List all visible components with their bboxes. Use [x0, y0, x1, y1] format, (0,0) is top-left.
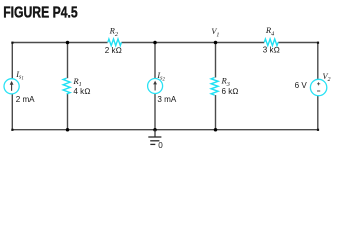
node junction dot bottom R3 — [214, 128, 218, 132]
svg-text:2 mA: 2 mA — [16, 95, 35, 104]
node corner bottom-left — [11, 129, 13, 131]
wire R3 branch lower — [215, 95, 217, 130]
node junction dot top R1 — [66, 41, 70, 45]
wire top-right segment — [278, 42, 319, 44]
node corner top-right — [317, 42, 319, 44]
node V1 junction dot — [214, 41, 218, 45]
svg-text:4 kΩ: 4 kΩ — [73, 87, 90, 96]
node junction dot bottom R1 — [66, 128, 70, 132]
wire top-left segment — [12, 42, 108, 44]
resistor R2 — [105, 26, 122, 56]
resistor R1 — [63, 76, 90, 96]
wire Is2 branch — [154, 43, 156, 130]
resistor R4 — [263, 25, 280, 54]
wire R3 branch upper — [215, 43, 217, 78]
wire R1 branch lower — [67, 94, 69, 130]
current source Is2 — [148, 71, 177, 104]
svg-text:3 mA: 3 mA — [157, 95, 176, 104]
ground — [148, 130, 163, 150]
wire top-middle segment — [121, 42, 264, 44]
svg-text:3 kΩ: 3 kΩ — [263, 45, 280, 54]
node corner bottom-right — [317, 129, 319, 131]
wire R1 branch upper — [67, 43, 69, 79]
wire right branch — [317, 42, 319, 131]
svg-text:6 V: 6 V — [295, 81, 308, 90]
current source Is1 — [4, 70, 35, 104]
svg-text:2 kΩ: 2 kΩ — [105, 46, 122, 55]
voltage source V2 (6 V) — [295, 72, 331, 96]
node corner top-left — [11, 42, 13, 44]
node junction dot top Is2 — [153, 41, 157, 45]
node junction dot bottom ground — [153, 128, 157, 132]
wire bottom — [12, 129, 319, 131]
svg-text:6 kΩ: 6 kΩ — [222, 87, 239, 96]
wire left branch — [11, 42, 13, 131]
svg-text:FIGURE P4.5: FIGURE P4.5 — [3, 4, 78, 21]
resistor R3 — [211, 76, 238, 96]
svg-text:0: 0 — [158, 141, 163, 150]
